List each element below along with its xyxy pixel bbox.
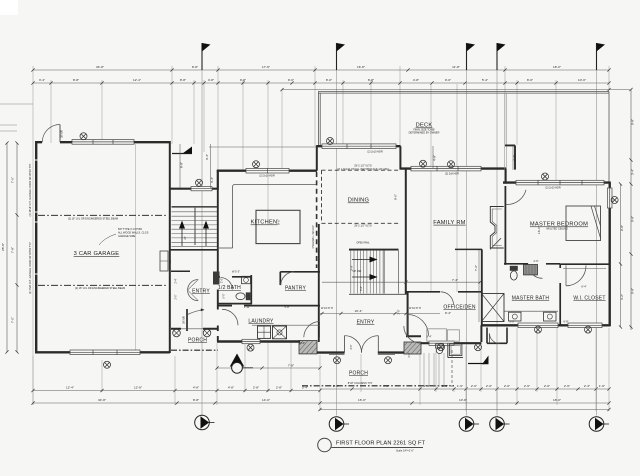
master rear wall xyxy=(503,181,611,183)
svg-text:9'-8": 9'-8" xyxy=(631,216,635,222)
svg-text:8"x8" COLUMNS TYP: 8"x8" COLUMNS TYP xyxy=(348,382,373,385)
bottom dimension row A xyxy=(33,389,609,391)
svg-text:5'-4": 5'-4" xyxy=(482,78,488,82)
svg-text:PANTRY: PANTRY xyxy=(285,286,306,292)
svg-text:W 16'-8" H: W 16'-8" H xyxy=(409,307,421,310)
master tub xyxy=(490,207,503,249)
svg-text:9'-0": 9'-0" xyxy=(445,78,451,82)
svg-text:UP 16R: UP 16R xyxy=(353,270,362,273)
pantry door xyxy=(281,272,294,285)
svg-text:18'-0": 18'-0" xyxy=(553,398,561,402)
svg-text:3/0 6/8: 3/0 6/8 xyxy=(61,130,64,138)
svg-text:2'-8": 2'-8" xyxy=(253,386,259,390)
svg-text:3/0 6/8: 3/0 6/8 xyxy=(183,316,186,324)
svg-text:1/2 BATH: 1/2 BATH xyxy=(218,285,241,291)
svg-text:17'-8": 17'-8" xyxy=(262,65,270,69)
svg-text:9'-4": 9'-4" xyxy=(427,336,432,339)
entry front wall xyxy=(317,351,406,353)
svg-text:6'-8": 6'-8" xyxy=(564,321,569,324)
section flag at stair xyxy=(172,153,192,155)
bottom dimension row B xyxy=(33,402,609,404)
hatched pier A xyxy=(299,341,317,354)
svg-text:4'-8": 4'-8" xyxy=(513,155,517,161)
svg-text:9'-8": 9'-8" xyxy=(631,288,635,294)
family rear wall xyxy=(400,167,506,169)
rear stair arrows xyxy=(182,228,206,246)
svg-text:9'-0": 9'-0" xyxy=(288,78,294,82)
svg-text:UP: UP xyxy=(184,236,187,240)
hidden line xyxy=(451,350,453,387)
svg-text:7'-8": 7'-8" xyxy=(288,363,294,367)
svg-text:7'-4": 7'-4" xyxy=(452,278,458,282)
svg-text:8'-0": 8'-0" xyxy=(527,78,533,82)
closet rod xyxy=(563,268,606,270)
svg-text:2'-0": 2'-0" xyxy=(174,294,177,299)
grid flags top xyxy=(201,43,203,70)
scan white patch top-left xyxy=(0,0,18,15)
svg-text:2'-8": 2'-8" xyxy=(398,309,401,314)
entry double door xyxy=(345,336,362,353)
svg-text:W 16'-8" H: W 16'-8" H xyxy=(321,307,333,310)
svg-text:3'-4": 3'-4" xyxy=(210,177,214,183)
right witness extension to east dim xyxy=(630,90,632,331)
svg-text:(1) 9'x8' O.H. GARAGE DOOR W/: (1) 9'x8' O.H. GARAGE DOOR W/ OPNR TYP xyxy=(29,242,32,294)
master toilet xyxy=(510,271,517,280)
svg-text:2'-6": 2'-6" xyxy=(564,384,570,388)
top dimension row 2 xyxy=(33,82,609,84)
furnace xyxy=(160,251,168,271)
svg-text:MASTER BATH: MASTER BATH xyxy=(512,296,550,302)
svg-text:F.D.: F.D. xyxy=(169,259,172,264)
svg-text:2'-0": 2'-0" xyxy=(471,384,477,388)
hall/office wall xyxy=(406,291,482,293)
svg-text:2'-6": 2'-6" xyxy=(534,260,539,263)
svg-text:8'-8": 8'-8" xyxy=(193,398,199,402)
hall dim line xyxy=(322,281,480,283)
svg-text:7'-0": 7'-0" xyxy=(11,177,15,183)
laundry dim row xyxy=(217,367,320,369)
family-master hall xyxy=(455,248,482,250)
hall jog diagonal xyxy=(490,238,501,249)
svg-text:9'-0": 9'-0" xyxy=(394,194,398,200)
front notch walls xyxy=(169,188,218,190)
bottom dimension row C xyxy=(320,409,609,411)
master south wall xyxy=(482,324,610,326)
svg-text:2'-8": 2'-8" xyxy=(276,386,282,390)
svg-text:16'-0": 16'-0" xyxy=(358,398,366,402)
dining tray ceiling dashed xyxy=(322,170,400,223)
svg-text:4'-8": 4'-8" xyxy=(413,78,419,82)
svg-text:12'-4": 12'-4" xyxy=(133,78,141,82)
garage steel beam 1 xyxy=(38,214,168,216)
office door xyxy=(441,292,454,305)
svg-text:3'-8": 3'-8" xyxy=(350,265,354,271)
stair hall walls (rear stair) xyxy=(217,189,219,342)
svg-text:W 5'-3": W 5'-3" xyxy=(232,271,240,274)
svg-text:11'-8": 11'-8" xyxy=(452,65,460,69)
svg-text:7'-0": 7'-0" xyxy=(11,317,15,323)
svg-text:(2) 2x8 HDR: (2) 2x8 HDR xyxy=(445,173,459,176)
half bath toilet xyxy=(236,293,245,300)
svg-text:KITCHEN: KITCHEN xyxy=(251,220,278,226)
svg-text:PORCH: PORCH xyxy=(188,338,207,344)
rear porch xyxy=(171,328,218,330)
svg-text:1'-11": 1'-11" xyxy=(244,306,250,309)
entry closet wall xyxy=(171,270,190,272)
svg-text:18'-0": 18'-0" xyxy=(553,65,561,69)
laundry front wall xyxy=(217,340,300,342)
svg-text:8'-0": 8'-0" xyxy=(326,78,332,82)
half bath door xyxy=(221,278,233,290)
svg-text:KNEEWALL W/ CAP: KNEEWALL W/ CAP xyxy=(312,225,315,248)
svg-text:VAULTED CEILING: VAULTED CEILING xyxy=(546,228,568,231)
svg-text:1'-6": 1'-6" xyxy=(457,384,463,388)
svg-text:28'-8": 28'-8" xyxy=(1,243,5,251)
kitchen front wall xyxy=(217,169,317,171)
svg-text:8'-8": 8'-8" xyxy=(180,162,184,168)
svg-text:3'-4": 3'-4" xyxy=(205,154,209,160)
svg-text:3 CAR GARAGE: 3 CAR GARAGE xyxy=(74,251,120,257)
deck edge xyxy=(319,91,610,182)
svg-text:8'-8": 8'-8" xyxy=(180,78,186,82)
svg-text:10'-8": 10'-8" xyxy=(459,398,467,402)
master bath north wall xyxy=(504,263,560,265)
svg-text:7'-2": 7'-2" xyxy=(474,265,478,271)
svg-text:3'-4": 3'-4" xyxy=(39,78,45,82)
grid bubbles bottom xyxy=(195,415,210,430)
svg-text:ENTRY: ENTRY xyxy=(357,320,375,326)
window symbols xyxy=(80,133,618,368)
svg-text:10'-0": 10'-0" xyxy=(578,78,586,82)
svg-text:FAMILY RM: FAMILY RM xyxy=(433,220,465,226)
svg-text:2'-6": 2'-6" xyxy=(544,384,550,388)
svg-text:29'-2 1/2" VLTG: 29'-2 1/2" VLTG xyxy=(354,225,372,228)
front porch slab xyxy=(302,385,454,387)
svg-text:DINING: DINING xyxy=(348,198,369,204)
svg-text:DETERMINED BY OWNER: DETERMINED BY OWNER xyxy=(409,132,440,135)
svg-text:2'-6": 2'-6" xyxy=(524,384,530,388)
svg-text:2'-8": 2'-8" xyxy=(408,352,411,357)
grid lines xyxy=(201,43,203,416)
master shower head wall xyxy=(524,265,538,275)
svg-text:(2) 16" LVL OR ENGINEERED STEE: (2) 16" LVL OR ENGINEERED STEEL BEAM xyxy=(68,218,118,221)
svg-text:5'-0": 5'-0" xyxy=(223,293,226,298)
garage walls xyxy=(36,141,170,143)
closet north wall xyxy=(560,263,609,265)
svg-text:9'-4": 9'-4" xyxy=(445,311,451,315)
interior dim marks xyxy=(180,144,317,188)
main stair xyxy=(351,250,383,293)
pantry walls xyxy=(280,272,320,285)
wall dining/deck step xyxy=(399,146,401,169)
svg-text:2'-6": 2'-6" xyxy=(504,384,510,388)
svg-text:W.I. CLOSET: W.I. CLOSET xyxy=(573,296,605,302)
svg-text:12'-4": 12'-4" xyxy=(66,386,74,390)
svg-text:OFFICE/DEN: OFFICE/DEN xyxy=(443,305,475,311)
family/master step walls xyxy=(505,93,507,183)
svg-text:Scale 1/4"=1'-0": Scale 1/4"=1'-0" xyxy=(396,450,414,453)
half bath sink xyxy=(242,276,251,283)
svg-text:34'-8": 34'-8" xyxy=(98,398,106,402)
svg-text:4'-8": 4'-8" xyxy=(208,78,214,82)
left dimension line xyxy=(16,143,18,352)
master closet door xyxy=(566,265,586,285)
rear stair xyxy=(172,208,218,247)
svg-text:(2) 2x10 HDR: (2) 2x10 HDR xyxy=(259,175,274,178)
svg-text:(2) 2x10 HDR: (2) 2x10 HDR xyxy=(545,187,560,190)
svg-text:4'-8": 4'-8" xyxy=(433,155,437,161)
svg-text:8'-8": 8'-8" xyxy=(368,78,374,82)
svg-text:2'-4": 2'-4" xyxy=(174,278,177,283)
master bedroom door xyxy=(507,190,526,205)
svg-text:5'-8": 5'-8" xyxy=(285,306,290,309)
svg-text:8'-8": 8'-8" xyxy=(192,65,198,69)
svg-text:4'-2": 4'-2" xyxy=(620,294,624,300)
svg-text:9'-8": 9'-8" xyxy=(240,78,246,82)
entry west door xyxy=(304,322,320,338)
master west wall xyxy=(504,186,506,265)
glass shower xyxy=(482,294,505,322)
svg-text:12'-8": 12'-8" xyxy=(134,386,142,390)
svg-text:16'-4": 16'-4" xyxy=(355,309,363,313)
master bath door xyxy=(528,264,543,279)
half bath walls xyxy=(214,276,253,278)
SE bay xyxy=(487,328,507,344)
svg-text:4'-8": 4'-8" xyxy=(193,386,199,390)
svg-text:ENTRY: ENTRY xyxy=(192,288,210,294)
svg-text:8'-8": 8'-8" xyxy=(73,78,79,82)
svg-text:16'-8": 16'-8" xyxy=(357,65,365,69)
entry east wall xyxy=(406,292,421,337)
svg-text:2'-3": 2'-3" xyxy=(584,384,590,388)
garage door breaks on left wall xyxy=(34,160,39,274)
svg-text:OPEN RAIL: OPEN RAIL xyxy=(356,242,370,245)
svg-text:1'-6": 1'-6" xyxy=(599,384,605,388)
svg-text:16'-0": 16'-0" xyxy=(299,342,305,345)
svg-text:5'-0": 5'-0" xyxy=(510,321,515,324)
laundry walls xyxy=(217,305,320,307)
svg-text:3'-0": 3'-0" xyxy=(350,344,353,349)
office front wall xyxy=(421,342,482,344)
vanity xyxy=(504,310,558,312)
office closet xyxy=(427,329,447,341)
dining/family divider + stair well xyxy=(405,169,407,295)
kitchen/dining half wall (dashed) xyxy=(316,172,318,268)
svg-text:FIRST FLOOR PLAN 2261 SQ FT: FIRST FLOOR PLAN 2261 SQ FT xyxy=(336,441,426,447)
svg-text:14'-0": 14'-0" xyxy=(262,398,270,402)
mud closet doors xyxy=(188,280,199,301)
step wall kitchen/dining xyxy=(316,145,318,171)
garage service door xyxy=(59,125,61,143)
hatched pier B xyxy=(404,342,421,354)
svg-text:34'-8": 34'-8" xyxy=(96,65,104,69)
svg-text:(2) 1 3/4x11 7/8 LVL (SET BTM: (2) 1 3/4x11 7/8 LVL (SET BTM @ 8'-1/2" … xyxy=(337,168,389,171)
step arrow xyxy=(468,363,484,365)
garage steel beam 2 xyxy=(38,284,168,286)
witness lines xyxy=(33,66,609,411)
svg-text:(2) 16" LVL OR ENGINEERED STEE: (2) 16" LVL OR ENGINEERED STEEL BEAM xyxy=(75,287,125,290)
svg-text:2'-0": 2'-0" xyxy=(221,278,224,283)
bath/closet divider xyxy=(559,264,561,325)
kitchen island xyxy=(256,210,300,243)
svg-text:9'-8": 9'-8" xyxy=(631,119,635,125)
top dimension row 1 xyxy=(33,69,609,71)
svg-text:GARAGE SIDE: GARAGE SIDE xyxy=(118,235,136,238)
step wall office/master xyxy=(480,325,482,342)
notch window xyxy=(191,187,212,191)
svg-text:9'-8": 9'-8" xyxy=(620,225,624,231)
entry dim line xyxy=(320,313,440,315)
main stair arrows xyxy=(352,260,370,278)
dining rear wall xyxy=(317,145,401,147)
svg-text:3'-4": 3'-4" xyxy=(631,169,635,175)
svg-text:7'-8": 7'-8" xyxy=(11,247,15,253)
master bed / tray xyxy=(566,206,601,241)
svg-text:PORCH: PORCH xyxy=(349,371,368,377)
svg-text:3'-0": 3'-0" xyxy=(360,286,363,291)
entry east door xyxy=(408,315,429,336)
front steps xyxy=(424,353,444,387)
washer dryer xyxy=(258,326,271,338)
svg-text:2'-0": 2'-0" xyxy=(486,384,492,388)
svg-text:(1) 16'x8' O.H. GARAGE DOOR W/: (1) 16'x8' O.H. GARAGE DOOR W/ OPNR TYP xyxy=(29,163,32,216)
small bath fixtures xyxy=(436,344,444,348)
section marker mid xyxy=(230,354,244,367)
garage bottom window xyxy=(70,350,140,355)
laundry hall door xyxy=(222,309,238,325)
garage top window xyxy=(72,140,134,145)
title bubble xyxy=(318,438,332,452)
svg-text:4'-8": 4'-8" xyxy=(228,386,234,390)
svg-text:(2) 2x10 HDR: (2) 2x10 HDR xyxy=(367,150,382,153)
master east wall xyxy=(609,182,611,326)
svg-text:8'-4": 8'-4" xyxy=(582,286,587,289)
svg-text:LAUNDRY: LAUNDRY xyxy=(248,319,274,325)
kitchen counter xyxy=(233,185,316,248)
